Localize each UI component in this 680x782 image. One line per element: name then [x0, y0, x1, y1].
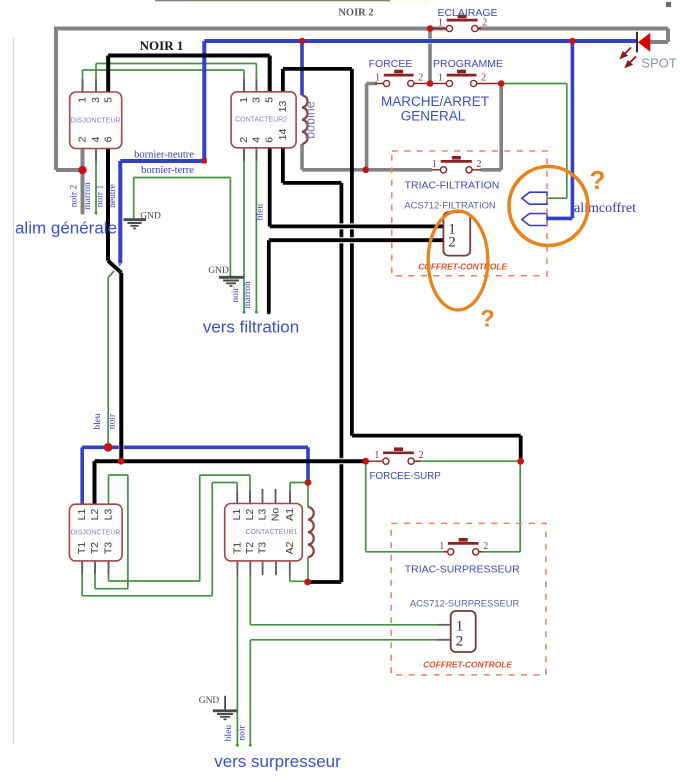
wire contacteur1 A1 horizontal [290, 482, 308, 484]
svg-text:5: 5 [264, 97, 276, 103]
wire contacteur1 A2 horizontal to junction [290, 580, 308, 582]
svg-text:marron: marron [83, 182, 93, 210]
svg-text:PROGRAMME: PROGRAMME [433, 58, 503, 70]
wire end noir surpresseur tip [249, 744, 252, 747]
pin stub disjoncteur pin1 [82, 79, 84, 92]
svg-text:COFFRET-CONTROLE: COFFRET-CONTROLE [423, 660, 512, 670]
led SPOT triangle [638, 33, 650, 52]
svg-text:?: ? [480, 306, 495, 333]
wire noir horizontal to forcee-surp [95, 459, 366, 463]
wire pin13 long vertical segment c [350, 243, 354, 435]
wire noir1 horizontal [108, 54, 270, 58]
wire noir1 crossover diagonal [110, 262, 121, 272]
wire pin14 long vertical segment c [339, 243, 343, 458]
wire L3 bridge top horizontal [109, 474, 128, 476]
pin stub disjoncteur pin3 [95, 79, 97, 92]
wire contacteur2 pin3 vertical [255, 64, 257, 92]
wire bleu horizontal right of junction [124, 445, 308, 449]
junction bornier-neutre corner square [202, 159, 207, 164]
svg-text:TRIAC-FILTRATION: TRIAC-FILTRATION [405, 180, 500, 192]
wire bleu horizontal left of junction [82, 445, 119, 449]
svg-text:L3: L3 [103, 509, 115, 521]
current sensor ACS712-FILTRATION body [443, 212, 470, 255]
ground GND3 symbol with stem [213, 696, 237, 720]
wire bobine feed vertical blue [300, 41, 304, 95]
pin stub contacteur1 L2 [249, 491, 251, 504]
svg-text:1: 1 [456, 619, 464, 635]
wire noir2 bus right vertical [666, 29, 670, 43]
wire bornier-terre vertical to GND2 [229, 178, 231, 278]
svg-text:bleu: bleu [256, 204, 266, 221]
wire pin14 long vertical segment b [339, 229, 343, 237]
wire end marron stub tip [95, 212, 98, 215]
breaker DISJONCTEUR (bottom) body [69, 504, 122, 561]
coil bobine of CONTACTEUR2 [302, 95, 308, 144]
wire pin13 horizontal [283, 67, 352, 71]
wire neutre vertical [118, 161, 122, 264]
wire eclairage junction vertical lower [428, 44, 432, 84]
wire end noir thick filtration tip [267, 311, 271, 315]
svg-text:4: 4 [90, 136, 102, 142]
wire alimcoffret green to arrow1 [547, 197, 567, 199]
wire T1 route top horizontal [212, 482, 237, 484]
wire disjoncteur2 L1 vertical [80, 447, 84, 504]
wire bleu vers surpresseur from T1 [236, 575, 238, 745]
pushbutton ECLAIRAGE [430, 15, 481, 32]
svg-text:2: 2 [482, 18, 487, 29]
pin stub contacteur1 No [275, 489, 277, 504]
wire T3 route bottom horizontal [109, 580, 200, 582]
pin stub contacteur1 L3 [262, 489, 264, 504]
svg-text:neutre: neutre [108, 184, 118, 208]
pin stub contacteur2 pin1 [243, 79, 245, 92]
wire disjoncteur pin1 vertical [82, 70, 84, 92]
wire L3 bridge right vertical [127, 475, 129, 589]
wire alimcoffret blue vertical [571, 41, 575, 218]
annotation orange circle around alimcoffret arrows [509, 167, 588, 246]
wire contacteur2 pin6 vertical [268, 148, 272, 227]
junction forcee-surp input [362, 458, 369, 465]
svg-text:GND: GND [208, 266, 229, 276]
wire triac-filtration line left [302, 168, 432, 172]
pin stub contacteur1 T1 [236, 561, 238, 575]
wire disjoncteur pin3 to contacteur2 pin3 horizontal [96, 63, 256, 65]
svg-text:noir 2: noir 2 [69, 185, 79, 208]
wire disjoncteur pin5 vertical [106, 56, 110, 93]
wire coil2 bottom vertical [300, 144, 304, 170]
pin stub contacteur1 No bottom [275, 561, 277, 575]
pin stub contacteur1 T2 [249, 561, 251, 575]
svg-text:2: 2 [418, 73, 423, 84]
junction coil2 return [362, 167, 369, 174]
wire contacteur2 pin14 vertical [281, 148, 285, 183]
wire noir1 long vertical [119, 273, 123, 461]
pushbutton FORCEE-SURP [366, 447, 420, 464]
pin stub disjoncteur2 T1 [81, 561, 83, 574]
wire contacteur1 T2 down vertical [249, 575, 251, 625]
svg-text:CONTACTEUR1: CONTACTEUR1 [246, 529, 298, 536]
wire end bleu surpresseur tip [236, 744, 239, 747]
dashed box COFFRET-CONTROLE top [392, 151, 547, 276]
page border faint line [13, 38, 15, 744]
pushbutton TRIAC-FILTRATION [432, 156, 481, 173]
wire contacteur1 L2 vertical [249, 475, 251, 503]
wire to acs712-filtration pin1 [270, 224, 444, 228]
wire pin13 horizontal to forcee-surp [352, 434, 521, 438]
wire forcee pin1 vertical [365, 84, 369, 170]
svg-text:5: 5 [103, 97, 115, 103]
wire neutre diagonal at crossover [108, 264, 120, 278]
led SPOT cathode bar [636, 32, 638, 53]
wire pin13 long vertical segment a [350, 69, 354, 224]
wire forcee-surp right vertical [519, 461, 521, 552]
pin stub acs712-surpresseur pin1 [438, 624, 451, 626]
wire forcee pin1 horizontal [367, 82, 377, 86]
svg-text:GENERAL: GENERAL [401, 109, 466, 124]
svg-text:1: 1 [438, 18, 443, 29]
svg-text:2: 2 [419, 450, 424, 461]
svg-text:T2: T2 [89, 542, 101, 554]
wire coil1 bottom connection [307, 557, 309, 582]
wire disjoncteur2 T2 vertical [94, 561, 96, 589]
svg-text:CONTACTEUR2: CONTACTEUR2 [235, 117, 287, 124]
contactor CONTACTEUR1 body [225, 504, 303, 561]
svg-text:1: 1 [77, 97, 89, 103]
wire pin14 horizontal [283, 181, 342, 185]
pin stub contacteur1 T3 [262, 561, 264, 575]
wire alimcoffret blue to arrow2 [547, 217, 572, 221]
pin stub disjoncteur2 T2 [94, 561, 96, 574]
svg-text:1: 1 [438, 73, 443, 84]
svg-text:2: 2 [456, 634, 464, 650]
wire end noir2 stub tip [81, 211, 85, 215]
wire from acs712-filtration pin2 [269, 238, 444, 242]
svg-text:COFFRET-CONTROLE: COFFRET-CONTROLE [418, 262, 507, 272]
svg-text:SPOT: SPOT [641, 56, 676, 71]
wire noir2 stub via disjoncteur pin2 [81, 149, 85, 214]
svg-text:T3: T3 [257, 542, 269, 554]
svg-text:noir: noir [108, 413, 118, 429]
wire T3 route top horizontal [200, 474, 250, 476]
wire down to forcee-surp junction [519, 436, 523, 462]
svg-text:2: 2 [481, 73, 486, 84]
svg-text:ECLAIRAGE: ECLAIRAGE [437, 7, 497, 19]
wire noir2 bus top horizontal right [479, 27, 669, 31]
svg-text:2: 2 [483, 541, 488, 552]
wire to acs712-surpresseur pin1 horizontal [250, 624, 440, 626]
wire bornier-neutre horizontal [120, 159, 204, 163]
svg-text:6: 6 [264, 137, 276, 143]
svg-text:L1: L1 [76, 509, 88, 521]
wire triac-surpresseur left horizontal [366, 551, 448, 553]
junction noir2 disjoncteur pin2 [78, 166, 86, 174]
pin stub contacteur1 L1 [236, 491, 238, 504]
wire triac-surpresseur right horizontal [479, 551, 520, 553]
wire disjoncteur2 T1 vertical [81, 561, 83, 596]
pin stub contacteur1 A2 [289, 561, 291, 575]
connector arrow alimcoffret pin1 [522, 192, 547, 204]
pin stub disjoncteur pin4 [95, 149, 97, 162]
wire noir2 bottom horizontal to junction [56, 168, 83, 172]
svg-text:marron: marron [243, 281, 253, 309]
svg-text:T3: T3 [103, 542, 115, 554]
wire blue bus horizontal [204, 39, 637, 43]
connector arrow alimcoffret pin2 [522, 214, 547, 226]
wire marron from contacteur2 pin4 [255, 148, 257, 312]
wire programme pin2 vertical [499, 84, 503, 170]
wire T1 route bottom horizontal [82, 595, 212, 597]
svg-text:ACS712-FILTRATION: ACS712-FILTRATION [404, 200, 495, 211]
svg-text:FORCEE: FORCEE [369, 58, 413, 70]
svg-text:14: 14 [277, 129, 289, 141]
svg-text:alimcoffret: alimcoffret [574, 201, 636, 216]
svg-text:bobine: bobine [304, 101, 318, 139]
svg-text:T1: T1 [76, 542, 88, 554]
dashed box COFFRET-CONTROLE bottom [391, 523, 546, 675]
wire noir2 bus left vertical [54, 27, 58, 171]
current sensor ACS712-SURPRESSEUR body [451, 611, 476, 652]
svg-text:L2: L2 [244, 509, 256, 521]
wire L3 bridge bottom horizontal to T2 [95, 588, 128, 590]
wire disjoncteur pin3 vertical [95, 64, 97, 93]
svg-text:ACS712-SURPRESSEUR: ACS712-SURPRESSEUR [410, 597, 520, 608]
svg-text:noir 1: noir 1 [96, 185, 106, 208]
junction programme output [498, 80, 505, 87]
svg-text:2: 2 [77, 136, 89, 142]
contactor CONTACTEUR2 body [231, 92, 296, 148]
junction eclairage tap [427, 25, 434, 32]
svg-text:NOIR 1: NOIR 1 [140, 38, 184, 53]
junction neutre-bleu [104, 443, 113, 452]
wire contacteur2 pin5 vertical [268, 56, 272, 92]
wire forcee-surp left vertical [365, 461, 367, 552]
wire blue down to coil1 junction [306, 447, 310, 482]
wire contacteur2 pin13 vertical [281, 69, 285, 92]
junction forcee-surp output [517, 458, 524, 465]
pin stub contacteur2 pin4 [255, 148, 257, 161]
wire alimcoffret green vertical [566, 84, 568, 199]
wire contacteur1 L1 vertical [236, 483, 238, 504]
junction forcee-programme [427, 80, 434, 87]
pushbutton FORCEE [375, 70, 430, 87]
wire triac-filtration line right [481, 168, 502, 172]
svg-text:vers filtration: vers filtration [203, 318, 299, 337]
svg-text:DISJONCTEUR: DISJONCTEUR [71, 118, 121, 125]
svg-text:1: 1 [374, 450, 379, 461]
svg-text:4: 4 [250, 137, 262, 143]
wire pin14 long vertical segment a [339, 183, 343, 224]
led SPOT light arrow 1 [621, 48, 631, 58]
svg-text:L2: L2 [89, 509, 101, 521]
breaker DISJONCTEUR (top) body [70, 92, 122, 149]
svg-text:NOIR 2: NOIR 2 [338, 8, 373, 19]
svg-text:bleu: bleu [224, 725, 234, 742]
wire forcee-surp switch output [414, 460, 520, 462]
coil of CONTACTEUR1 [308, 507, 314, 557]
svg-text:3: 3 [250, 97, 262, 103]
wire contacteur2 pin1 vertical [243, 70, 245, 92]
wire noir1 from disjoncteur pin6 [106, 149, 110, 261]
svg-text:A2: A2 [284, 541, 296, 554]
wire bornier-terre vertical to GND1 [133, 178, 135, 220]
pin stub contacteur2 pin2 [243, 148, 245, 161]
wire T1 route right vertical [211, 483, 213, 596]
wire disjoncteur2 L3 stub up [108, 475, 110, 504]
wire noir vers surpresseur vertical [249, 640, 251, 745]
ground GND2 symbol [219, 277, 244, 286]
wire coil1 top connection [307, 483, 309, 508]
wire end noir filtration tip [243, 311, 246, 314]
cropped text smudge at top [185, 0, 430, 4]
svg-text:6: 6 [103, 136, 115, 142]
svg-text:13: 13 [277, 101, 289, 113]
wire contacteur1 A1 vertical [289, 483, 291, 504]
svg-text:3: 3 [90, 97, 102, 103]
wire noir2 to led anode [650, 40, 668, 44]
svg-text:vers surpresseur: vers surpresseur [214, 752, 341, 771]
junction alimcoffret blue tap [569, 38, 576, 45]
wire disjoncteur2 T3 vertical [108, 561, 110, 581]
junction noir1 L2 [118, 458, 125, 465]
svg-text:A1: A1 [284, 508, 296, 521]
svg-text:T1: T1 [231, 542, 243, 554]
svg-text:TRIAC-SURPRESSEUR: TRIAC-SURPRESSEUR [405, 564, 520, 576]
svg-text:1: 1 [432, 159, 437, 170]
svg-text:noir: noir [237, 725, 247, 741]
pushbutton TRIAC-SURPRESSEUR [444, 538, 483, 555]
pin stub contacteur2 pin3 [255, 79, 257, 92]
svg-text:L1: L1 [231, 509, 243, 521]
wire neutre vertical below crossover [107, 278, 109, 448]
svg-text:T2: T2 [244, 542, 256, 554]
pushbutton PROGRAMME [430, 70, 501, 87]
svg-text:GND: GND [199, 696, 220, 706]
svg-text:bleu: bleu [93, 413, 103, 430]
svg-text:1: 1 [375, 73, 380, 84]
svg-text:noir: noir [231, 287, 241, 303]
svg-text:bornier-terre: bornier-terre [141, 165, 194, 176]
svg-text:L3: L3 [257, 509, 269, 521]
svg-text:GND: GND [140, 212, 161, 222]
svg-text:1: 1 [238, 97, 250, 103]
svg-text:2: 2 [448, 235, 456, 251]
svg-text:DISJONCTEUR: DISJONCTEUR [71, 530, 121, 537]
ground GND1 symbol [123, 220, 146, 229]
wire end marron filtration tip [255, 311, 258, 314]
wire noir vers filtration vertical [267, 240, 271, 312]
wire noir2 bus top horizontal left [54, 27, 446, 31]
wire T3 route right vertical [199, 475, 201, 581]
junction coil1 top A1 [305, 479, 312, 486]
wire coil1 junction horizontal [308, 580, 342, 584]
wire eclairage junction vertical upper [428, 29, 432, 39]
svg-text:No: No [270, 508, 282, 522]
wire disjoncteur pin1 to contacteur2 pin1 horizontal [83, 69, 245, 71]
svg-text:2: 2 [238, 137, 250, 143]
wire contacteur1 A2 vertical [289, 575, 291, 581]
led SPOT light arrow 2 [626, 57, 636, 67]
svg-text:MARCHE/ARRET: MARCHE/ARRET [381, 94, 489, 109]
wire alimcoffret green horizontal from programme [501, 83, 567, 85]
pin stub contacteur1 A1 [289, 491, 291, 504]
wire disjoncteur2 L2 vertical [93, 461, 97, 504]
junction coil1 bottom A2 [304, 579, 311, 586]
svg-text:bornier-neutre: bornier-neutre [134, 150, 194, 161]
svg-text:1: 1 [439, 541, 444, 552]
wire pin14 long vertical segment d [339, 464, 343, 582]
wire bornier-terre horizontal [134, 177, 231, 179]
svg-text:2: 2 [477, 159, 482, 170]
pin stub acs712-surpresseur pin2 [438, 639, 451, 641]
wire noir from contacteur2 pin2 [243, 148, 245, 312]
wire pin13 long vertical segment b [350, 229, 354, 237]
wire marron stub from disjoncteur pin4 [95, 149, 97, 214]
pin stub disjoncteur2 T3 [108, 561, 110, 574]
svg-text:FORCEE-SURP: FORCEE-SURP [370, 471, 442, 482]
junction bobine tap [299, 38, 306, 45]
wire from acs712-surpresseur pin2 horizontal [250, 639, 440, 641]
scrollbar fragment top-right [666, 2, 671, 7]
annotation orange ellipse around acs712-filtration [428, 211, 488, 310]
svg-text:?: ? [590, 165, 606, 195]
wire bornier-neutre vertical [202, 41, 206, 161]
svg-text:alim générale: alim générale [15, 219, 117, 238]
